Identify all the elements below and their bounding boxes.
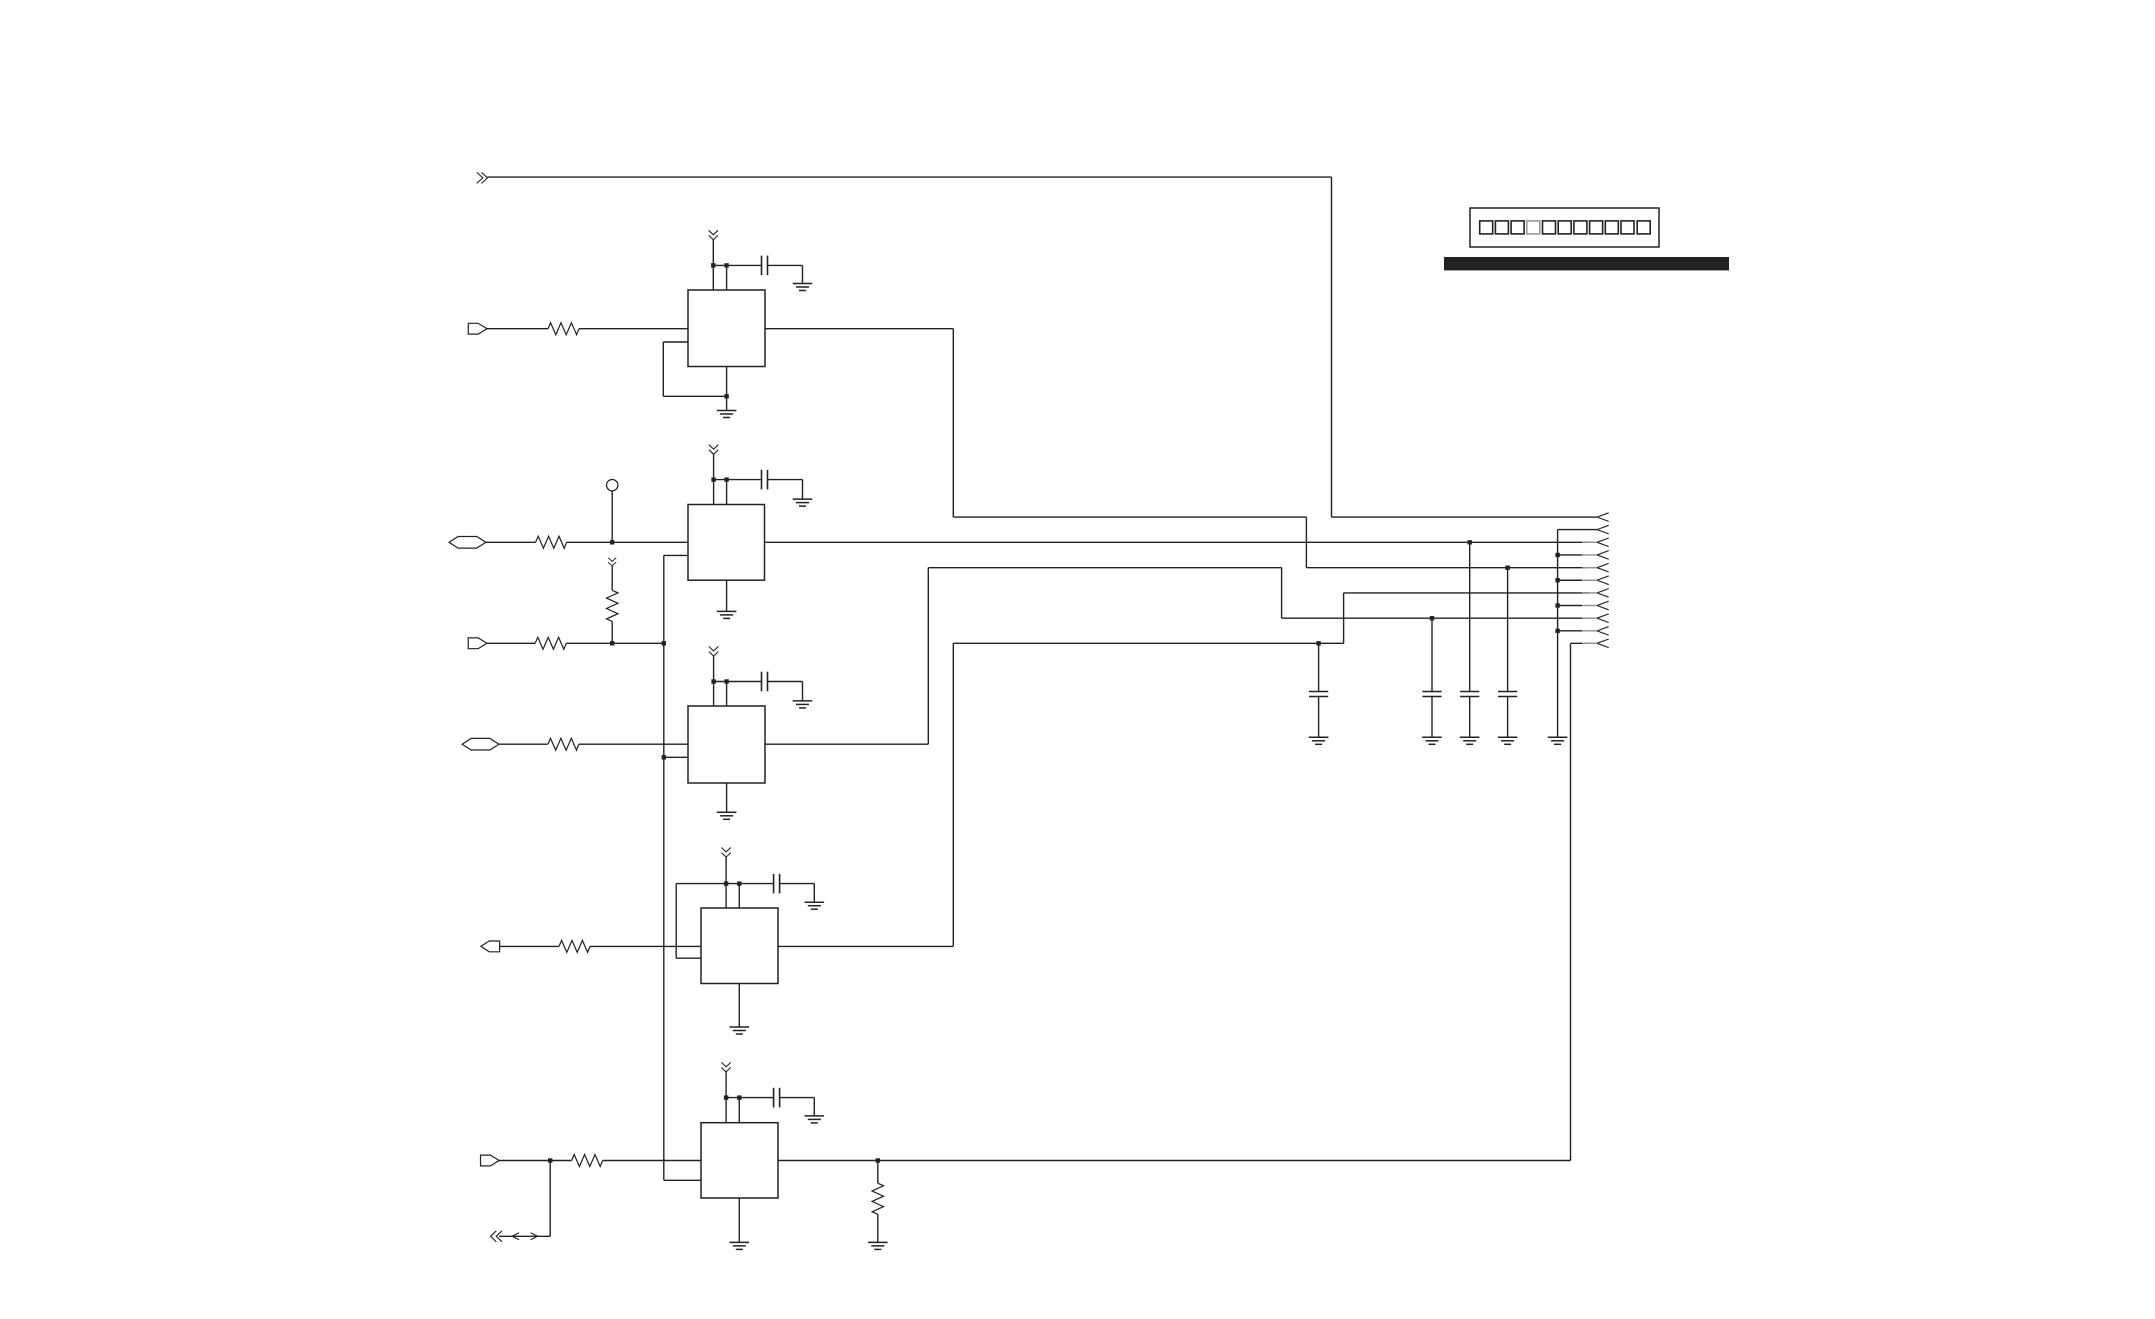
- IC U4: [701, 908, 778, 984]
- wire net A jog: [953, 516, 1306, 518]
- wire VCC4 to U4 pin: [725, 857, 727, 908]
- wire J4 to R5: [499, 743, 548, 745]
- legend square 8: [1590, 221, 1603, 234]
- wire net B vertical: [1331, 177, 1333, 517]
- wire TP1 down: [611, 491, 613, 542]
- connector pin 11: [1597, 639, 1609, 648]
- node off-page link chevrons: [491, 1231, 503, 1242]
- ground: [1309, 737, 1329, 744]
- wire pull-up lead: [611, 566, 613, 591]
- power symbol VCC1: [709, 230, 718, 240]
- junction: [1505, 566, 1509, 570]
- power symbol VCC5: [721, 1062, 730, 1072]
- wire U5 second top pin: [738, 1098, 740, 1123]
- wire VCC3 to U3 pin: [713, 656, 715, 706]
- connector J1 input tag: [468, 323, 487, 334]
- wire ground bus top to pin 2: [1558, 529, 1589, 531]
- wire power rail U4: [676, 883, 773, 885]
- wire U1 second top pin: [726, 265, 728, 290]
- wire R1 to U1: [579, 328, 688, 330]
- connector J2 input hexagon tag: [449, 537, 486, 549]
- wire R4 to row: [611, 621, 613, 643]
- title bar: [1444, 257, 1729, 270]
- wire C1 to ground: [768, 264, 803, 266]
- connector J5 output tag: [481, 941, 500, 952]
- wire power rail U5: [726, 1097, 774, 1099]
- legend square 2: [1495, 221, 1508, 234]
- junction: [711, 263, 715, 267]
- wire R2 to U2: [567, 541, 688, 543]
- legend square 9: [1605, 221, 1618, 234]
- legend square 1: [1480, 221, 1493, 234]
- wire power rail U1: [713, 264, 761, 266]
- capacitor C9 lead (net A): [1507, 568, 1509, 692]
- ground: [793, 284, 813, 291]
- wire branch down: [549, 1161, 551, 1237]
- connector pin 10: [1597, 627, 1609, 636]
- capacitor C9: [1498, 692, 1517, 697]
- wire J5 to R6: [500, 945, 559, 947]
- wire C8 to ground: [1469, 697, 1471, 738]
- wire VCC5 to U5 pin: [725, 1072, 727, 1123]
- wire net A vertical: [952, 329, 954, 517]
- power symbol VCC3: [709, 647, 718, 657]
- wire power rail U2: [714, 479, 762, 481]
- wire net E jog: [1343, 593, 1345, 643]
- terminal circle TP1: [607, 480, 618, 491]
- wire net D jog: [928, 567, 1281, 569]
- ground: [717, 611, 737, 618]
- resistor R6: [559, 940, 590, 952]
- wire net B horizontal: [488, 176, 1332, 178]
- wire R6 to U4: [590, 945, 701, 947]
- wire C5 to ground: [1318, 697, 1320, 738]
- connector pin 8: [1597, 601, 1609, 610]
- junction: [1430, 616, 1434, 620]
- ground: [868, 1242, 888, 1249]
- junction: [724, 679, 728, 683]
- wire U5 output net F: [778, 1160, 1571, 1162]
- node CLK input double-chevron terminal: [477, 172, 488, 183]
- wire power rail U3: [714, 681, 762, 683]
- wire U4 bottom pin: [738, 984, 740, 1028]
- wire branch to link arrow: [499, 1235, 550, 1237]
- junction pin 8 bus tap: [1555, 603, 1559, 607]
- connector pin 1: [1597, 513, 1609, 522]
- wire net E horizontal: [953, 642, 1343, 644]
- capacitor C8 lead (net C): [1469, 542, 1471, 691]
- wire pin 5 gray stub: [1582, 567, 1597, 569]
- junction: [724, 263, 728, 267]
- ground: [805, 902, 825, 909]
- connector pin 5: [1597, 563, 1609, 572]
- wire U3 output net D: [765, 743, 928, 745]
- wire pin 2 stub: [1589, 529, 1597, 531]
- power symbol VCC2: [709, 445, 718, 455]
- wire pin 6 stub: [1558, 579, 1582, 581]
- resistor R4 vertical: [607, 590, 618, 621]
- wire pin 4 stub: [1558, 554, 1582, 556]
- wire pin 8 gray stub: [1582, 605, 1597, 607]
- capacitor C7 lead (net D): [1431, 618, 1433, 691]
- connector pin 9: [1597, 614, 1609, 623]
- wire C4 to ground: [780, 883, 815, 885]
- wire U2 second top pin: [726, 480, 728, 505]
- wire pin 1 stub: [1589, 516, 1597, 518]
- junction: [711, 679, 715, 683]
- junction: [737, 881, 741, 885]
- wire pin 10 stub: [1558, 630, 1582, 632]
- connector pin 2: [1597, 525, 1609, 534]
- wire U2 bottom pin: [726, 580, 728, 611]
- IC U3: [688, 706, 765, 783]
- IC U5: [701, 1123, 778, 1198]
- connector pin 7: [1597, 589, 1609, 598]
- junction: [737, 1095, 741, 1099]
- wire J2 to R2: [486, 541, 536, 543]
- capacitor C5: [1309, 692, 1328, 697]
- power symbol VCC4: [721, 848, 730, 858]
- wire R5 to U3: [579, 743, 688, 745]
- wire net D to pin 9: [1282, 617, 1589, 619]
- capacitor C4: [774, 874, 780, 894]
- wire VCC2 to U2 pin: [713, 454, 715, 504]
- connector pin 4: [1597, 551, 1609, 560]
- node link arrowhead right: [531, 1233, 538, 1240]
- junction: [548, 1158, 552, 1162]
- node link arrowhead left: [512, 1233, 519, 1240]
- junction: [724, 881, 728, 885]
- wire pin 11 gray stub: [1582, 642, 1597, 644]
- wire net B to pin 1: [1332, 516, 1590, 518]
- wire VCC1 to U1 pin: [712, 240, 714, 290]
- capacitor C1: [762, 256, 768, 276]
- IC U1: [688, 290, 765, 367]
- capacitor C2: [762, 470, 768, 490]
- wire net F to pin 11: [1571, 642, 1590, 644]
- wire R7 to U5: [603, 1160, 701, 1162]
- wire U2 output net C: [765, 541, 1590, 543]
- connector pin 6: [1597, 576, 1609, 585]
- wire R3 junctions: [566, 642, 664, 644]
- wire ground bus vertical: [1557, 530, 1559, 738]
- wire U4 second top pin: [738, 884, 740, 908]
- wire pin 6 gray stub: [1582, 579, 1597, 581]
- junction pin 10 bus tap: [1555, 629, 1559, 633]
- wire C7 to ground: [1431, 697, 1433, 738]
- junction: [724, 1095, 728, 1099]
- wire pin 8 stub: [1558, 605, 1582, 607]
- resistor R3: [535, 637, 566, 649]
- capacitor C5 lead: [1318, 643, 1320, 691]
- connector J3 input tag: [468, 638, 487, 649]
- wire U3 second top pin: [726, 682, 728, 707]
- resistor R1: [548, 323, 579, 335]
- wire U4 output net E: [778, 945, 953, 947]
- IC U2: [688, 505, 765, 581]
- wire pin 4 gray stub: [1582, 554, 1597, 556]
- junction: [724, 477, 728, 481]
- legend box: [1470, 208, 1659, 247]
- wire net F vertical up: [1570, 643, 1572, 1160]
- junction: [662, 641, 666, 645]
- wire R8 lead: [877, 1161, 879, 1184]
- legend square 11: [1637, 221, 1650, 234]
- junction: [1468, 540, 1472, 544]
- legend square 4: [1527, 221, 1540, 234]
- junction pin 6 bus tap: [1555, 578, 1559, 582]
- wire net E vertical up: [952, 643, 954, 946]
- legend square 6: [1558, 221, 1571, 234]
- wire net A to pin 5: [1306, 567, 1589, 569]
- wire R8 to ground: [877, 1214, 879, 1242]
- ground: [717, 411, 737, 418]
- wire pin 10 gray stub: [1582, 630, 1597, 632]
- ground: [730, 1242, 750, 1249]
- wire J1 to R1: [487, 328, 548, 330]
- junction: [610, 540, 614, 544]
- wire pin 7 gray stub: [1582, 592, 1597, 594]
- wire pin 9 gray stub: [1582, 617, 1597, 619]
- capacitor C7: [1422, 692, 1441, 697]
- wire net D vertical up: [927, 568, 929, 745]
- capacitor C8: [1460, 692, 1479, 697]
- wire pin 3 gray stub: [1582, 541, 1597, 543]
- junction: [662, 755, 666, 759]
- legend square 10: [1621, 221, 1634, 234]
- ground: [805, 1116, 825, 1123]
- junction: [724, 394, 728, 398]
- wire U1 bottom pin: [726, 367, 728, 411]
- junction: [1316, 641, 1320, 645]
- connector J6 input tag: [481, 1155, 500, 1166]
- ground: [1460, 737, 1480, 744]
- wire J3 to R3: [487, 642, 535, 644]
- connector J4 input hexagon tag: [462, 738, 499, 750]
- wire C6 to ground: [780, 1097, 815, 1099]
- legend square 3: [1511, 221, 1524, 234]
- wire U1 output net A: [765, 328, 953, 330]
- wire U5 lower-left pin: [664, 1179, 701, 1181]
- wire U4 feedback loop: [675, 884, 677, 959]
- capacitor C3: [762, 672, 768, 692]
- wire C3 to ground: [768, 681, 803, 683]
- wire U3 lower-left pin: [664, 756, 688, 758]
- wire C9 to ground: [1507, 697, 1509, 738]
- resistor R2: [536, 536, 567, 548]
- connector pin 3: [1597, 538, 1609, 547]
- ground: [717, 812, 737, 819]
- junction: [610, 641, 614, 645]
- wire long vertical bus to U5: [663, 555, 665, 1180]
- junction pin 4 bus tap: [1555, 553, 1559, 557]
- resistor R7: [572, 1155, 603, 1167]
- power symbol for R4 pull-up: [608, 558, 616, 566]
- ground: [730, 1027, 750, 1034]
- ground: [793, 499, 813, 506]
- wire J6 to R7: [499, 1160, 571, 1162]
- ground: [1548, 737, 1568, 744]
- junction: [711, 477, 715, 481]
- wire U1 feedback: [663, 341, 688, 343]
- wire C2 to ground: [768, 479, 803, 481]
- ground: [1498, 737, 1518, 744]
- resistor R8 vertical: [872, 1183, 883, 1214]
- resistor R5: [548, 738, 579, 750]
- capacitor C6: [774, 1088, 780, 1108]
- ground: [793, 701, 813, 708]
- wire U3 bottom pin: [726, 783, 728, 812]
- junction: [876, 1158, 880, 1162]
- wire U2 lower-left pin: [664, 554, 688, 556]
- legend square 7: [1574, 221, 1587, 234]
- ground: [1422, 737, 1442, 744]
- wire U5 bottom pin: [738, 1198, 740, 1242]
- legend square 5: [1543, 221, 1556, 234]
